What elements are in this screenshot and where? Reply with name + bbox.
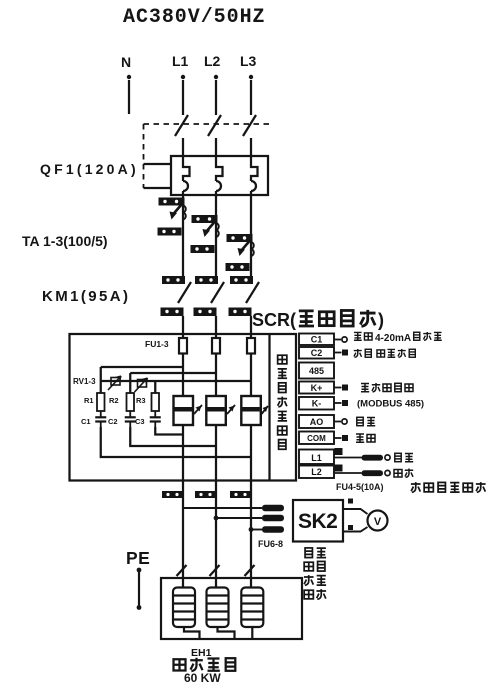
capacitor C1: [95, 411, 106, 427]
svg-text:PE: PE: [126, 548, 150, 568]
fuse FU3: [247, 338, 255, 354]
thyristor module V2: [206, 396, 235, 425]
wire N drop: [128, 80, 130, 114]
wire L1 lead: [334, 457, 362, 459]
junction block L1: [162, 491, 183, 498]
pin square K-: [342, 400, 348, 406]
terminal strip: [299, 334, 334, 479]
resistor R1: [97, 393, 105, 411]
annotation L1 wire: [395, 453, 413, 461]
wire L2 fuse to module: [215, 354, 217, 397]
svg-text:L2: L2: [204, 53, 221, 69]
contactor KM1 pole 3: [229, 276, 260, 316]
svg-text:R3: R3: [136, 396, 146, 405]
fuse FU4: [362, 455, 384, 461]
wire L2 lead: [334, 472, 362, 474]
svg-text:(MODBUS 485): (MODBUS 485): [357, 399, 424, 410]
svg-text:R1: R1: [84, 396, 94, 405]
svg-text:L1: L1: [172, 53, 189, 69]
svg-text:SCR(: SCR(: [252, 310, 296, 330]
wire L3 to heater: [250, 481, 252, 588]
fuse FU5: [362, 470, 384, 476]
wire tap L3 to SK2: [251, 529, 262, 531]
svg-text:485: 485: [309, 366, 324, 376]
wire QF1 leader lower: [144, 187, 172, 189]
annotation L2 wire: [394, 469, 413, 478]
node tap L3: [249, 527, 254, 532]
node dot N: [127, 75, 131, 79]
current transformer TA3: [226, 234, 254, 271]
wire QF1 leader upper: [144, 163, 172, 165]
resistor R3: [152, 393, 160, 411]
svg-text:4-20mA: 4-20mA: [375, 333, 411, 344]
wire L1 to heater: [182, 481, 184, 588]
wire element1 return: [184, 627, 200, 639]
voltmeter V: [368, 511, 388, 531]
caption under SK2: [304, 548, 326, 599]
wire tap L1 to SK2: [183, 507, 262, 509]
pin circle C1: [342, 337, 347, 342]
wire AO lead: [334, 421, 341, 423]
tick L1 feed: [177, 565, 187, 576]
pin circle AO: [342, 419, 347, 424]
heater enclosure EH1: [161, 578, 302, 639]
wire COM lead: [334, 437, 342, 439]
svg-text:C1: C1: [81, 417, 91, 426]
wire snubber bottom 1: [101, 427, 251, 457]
pin circle FU4: [385, 455, 390, 460]
terminal 485: [299, 363, 334, 379]
pin square COM: [342, 435, 348, 441]
svg-text:TA 1-3(100/5): TA 1-3(100/5): [22, 233, 108, 249]
voltmeter unit SK2: [293, 500, 343, 542]
varistor RV2: [135, 378, 148, 392]
wire C1 lead: [334, 339, 341, 341]
junction block L3: [230, 491, 251, 498]
pin circle FU5: [385, 470, 390, 475]
tick L3 feed: [245, 565, 255, 576]
svg-text:60 KW: 60 KW: [184, 671, 221, 685]
terminal leads and annotations: [334, 340, 342, 439]
heater caption: [174, 658, 236, 671]
wire snubber top 2: [130, 373, 216, 393]
svg-text:L2: L2: [311, 467, 322, 477]
wire L1 KM1 to SCR box: [182, 316, 184, 338]
wire L1 box to KM1: [182, 195, 184, 284]
fuse FU2: [212, 338, 220, 354]
svg-text:C2: C2: [108, 417, 118, 426]
svg-text:FU6-8: FU6-8: [258, 539, 283, 549]
pin mark meter b: [348, 525, 353, 530]
wire K+ lead: [334, 387, 342, 389]
resistor R2: [127, 393, 135, 411]
svg-text:K+: K+: [311, 383, 323, 393]
svg-text:FU1-3: FU1-3: [145, 339, 169, 349]
node tap L2: [214, 516, 219, 521]
pin square K+: [342, 385, 348, 391]
wire L1 fuse to module: [182, 354, 184, 397]
fuse FU7: [262, 515, 284, 521]
svg-text:AC380V/50HZ: AC380V/50HZ: [123, 6, 265, 29]
terminal K-: [299, 397, 334, 410]
SCR module title: [252, 310, 384, 330]
terminal C2: [299, 347, 334, 359]
wire L3 fuse to module: [250, 354, 252, 397]
pin square C2: [342, 350, 348, 356]
varistor RV1: [108, 376, 121, 390]
svg-text:C3: C3: [135, 417, 145, 426]
wire L3 top: [250, 80, 252, 115]
thyristor module V1: [174, 396, 203, 425]
terminal AO: [299, 415, 334, 428]
node dot L2: [214, 75, 218, 79]
svg-text:KM1(95A): KM1(95A): [42, 288, 130, 305]
thermal element L1: [183, 156, 190, 181]
wire L1 blade to box: [182, 138, 184, 156]
wire snubber bottom 3: [155, 427, 183, 435]
svg-text:EH1: EH1: [191, 647, 212, 659]
terminal K+: [299, 382, 334, 394]
terminal COM: [299, 432, 334, 445]
svg-text:SK2: SK2: [298, 510, 337, 533]
thermal element L2: [216, 156, 223, 181]
annotation signal input: [354, 349, 416, 357]
terminal L1 pin square: [335, 448, 343, 455]
fuse FU6: [262, 505, 284, 511]
svg-text:RV1-3: RV1-3: [73, 377, 96, 386]
wire L2 KM1 to SCR box: [215, 316, 217, 338]
svg-text:AO: AO: [310, 417, 324, 427]
terminal C1: [299, 334, 334, 346]
node dot L1: [181, 75, 185, 79]
wire element3 return: [251, 627, 253, 639]
contactor KM1 pole 1: [161, 276, 192, 316]
wire C2 lead: [334, 352, 342, 354]
wire L2 to heater: [215, 481, 217, 588]
contactor KM1 pole 2: [194, 276, 225, 316]
current transformer TA1: [158, 198, 186, 236]
SCR vertical caption column: [277, 355, 287, 449]
svg-text:QF1(120A): QF1(120A): [40, 161, 139, 177]
annotation 4-20mA control: [354, 332, 442, 344]
wire snubber top 1: [101, 367, 183, 393]
breaker QF1 pole blade L3: [243, 115, 256, 136]
terminal L2: [299, 466, 334, 479]
wire snubber bottom 2: [130, 427, 216, 446]
annotation comm port: [361, 383, 413, 392]
wire varistor bus: [101, 381, 251, 393]
svg-text:V: V: [374, 516, 382, 528]
SCR module box U1: [70, 334, 297, 481]
wire L1 module out: [182, 425, 184, 481]
breaker QF1 thermal box: [171, 156, 268, 195]
breaker QF1 pole blade L1: [175, 115, 188, 136]
svg-text:L1: L1: [311, 453, 322, 463]
breaker QF1 dashed enclosure: [144, 124, 271, 188]
capacitor C3: [150, 411, 161, 427]
wire SK2 meter lower: [343, 527, 368, 532]
thermal element L3: [251, 156, 258, 181]
terminal L1: [299, 450, 334, 465]
heater element 1: [173, 588, 195, 628]
svg-text:R2: R2: [109, 396, 119, 405]
pin mark meter a: [348, 499, 353, 504]
svg-text:): ): [378, 310, 384, 330]
heater element 3: [241, 588, 263, 628]
wire element2 return: [218, 627, 235, 639]
tick L2 feed: [210, 565, 220, 576]
fuse FU8: [262, 526, 284, 532]
wire L3 blade to box: [250, 138, 252, 156]
wire L2 top: [215, 80, 217, 115]
wire L2 box to KM1: [215, 195, 217, 284]
wire SK2 meter upper: [343, 509, 368, 514]
junction block L2: [195, 491, 216, 498]
wire L1 top: [182, 80, 184, 115]
wire L2 module out: [215, 425, 217, 481]
svg-text:C1: C1: [311, 335, 323, 345]
wire L3 module out: [250, 425, 252, 481]
thyristor module V3: [241, 396, 268, 425]
annotation alarm: [357, 417, 375, 425]
SCR box inner divider: [268, 334, 270, 481]
wire L2 blade to box: [215, 138, 217, 156]
node dot L3: [249, 75, 253, 79]
svg-text:K-: K-: [312, 399, 322, 409]
capacitor C2: [125, 411, 136, 427]
heater element 2: [207, 588, 229, 628]
annotation output: [356, 434, 375, 442]
svg-text:COM: COM: [307, 434, 326, 443]
annotation sync voltage: [411, 482, 486, 492]
svg-text:FU4-5(10A): FU4-5(10A): [336, 482, 384, 492]
fuse FU1: [179, 338, 187, 354]
terminal L2 pin square: [335, 465, 343, 472]
wire L3 box to KM1: [250, 195, 252, 284]
svg-text:C2: C2: [311, 348, 323, 358]
wire tap L2 to SK2: [216, 517, 262, 519]
svg-text:L3: L3: [240, 53, 257, 69]
breaker QF1 pole blade L2: [208, 115, 221, 136]
wire L3 KM1 to SCR box: [250, 316, 252, 338]
svg-text:N: N: [121, 54, 131, 70]
wire K- lead: [334, 402, 342, 404]
current transformer TA2: [191, 215, 219, 253]
ground PE lead: [137, 568, 142, 610]
